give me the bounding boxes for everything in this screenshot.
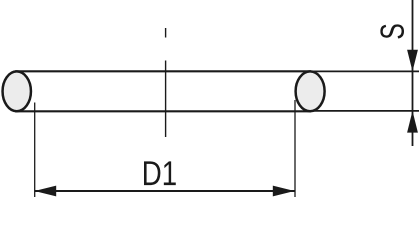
S dimension line	[412, 0, 414, 146]
S top extension line	[310, 70, 419, 72]
D1 right arrowhead	[273, 186, 295, 197]
S top arrowhead	[407, 50, 418, 72]
o-ring top outline line	[15, 70, 311, 72]
D1 label "D"	[144, 161, 160, 185]
right cross-section circle	[296, 71, 325, 111]
D1 right extension line	[294, 100, 296, 197]
S bottom arrowhead	[407, 111, 418, 133]
D1 dimension line	[35, 190, 295, 192]
centerline dash	[165, 28, 167, 38]
D1 left extension line	[34, 103, 36, 198]
left cross-section circle	[3, 71, 31, 111]
D1 label "1"	[164, 161, 176, 185]
o-ring bottom outline line	[15, 110, 311, 112]
S bottom extension line	[310, 110, 419, 112]
D1 left arrowhead	[35, 186, 57, 197]
S label	[380, 24, 404, 38]
centerline long segment	[165, 61, 167, 138]
